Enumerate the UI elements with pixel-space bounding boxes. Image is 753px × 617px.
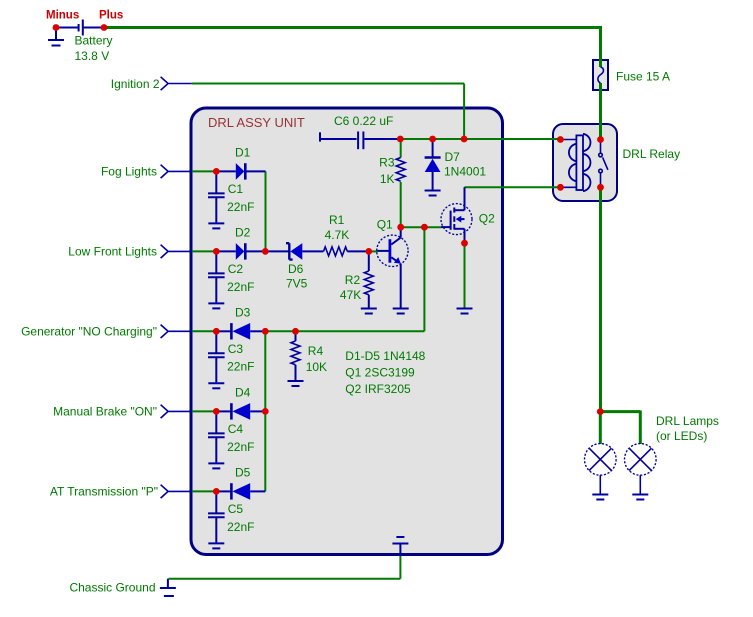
svg-text:R2: R2 [345,273,361,287]
svg-text:C3: C3 [228,342,244,356]
svg-text:22nF: 22nF [227,280,254,294]
svg-text:Battery: Battery [75,34,113,48]
svg-text:10K: 10K [306,360,327,374]
svg-text:Manual Brake "ON": Manual Brake "ON" [53,405,157,419]
svg-text:22nF: 22nF [227,360,254,374]
svg-text:13.8 V: 13.8 V [75,49,110,63]
svg-text:D1-D5 1N4148: D1-D5 1N4148 [345,349,425,363]
svg-text:D1: D1 [235,146,251,160]
svg-text:4.7K: 4.7K [325,228,350,242]
svg-text:22nF: 22nF [227,200,254,214]
svg-text:Generator "NO Charging": Generator "NO Charging" [21,325,157,339]
svg-text:C2: C2 [228,262,244,276]
svg-text:(or LEDs): (or LEDs) [656,429,707,443]
svg-text:Fog Lights: Fog Lights [101,165,157,179]
svg-text:Q1: Q1 [377,218,393,232]
svg-text:7V5: 7V5 [286,277,308,291]
svg-text:Chassic Ground: Chassic Ground [69,580,155,594]
svg-text:AT Transmission "P": AT Transmission "P" [50,485,158,499]
svg-text:C1: C1 [228,182,244,196]
svg-text:C5: C5 [228,502,244,516]
svg-text:Ignition 2: Ignition 2 [111,77,160,91]
svg-text:1N4001: 1N4001 [444,165,486,179]
svg-text:47K: 47K [340,288,361,302]
svg-text:Minus: Minus [46,10,79,22]
svg-text:D6: D6 [288,262,304,276]
svg-text:R4: R4 [308,344,324,358]
svg-text:Q2: Q2 [479,211,495,225]
svg-text:Q1 2SC3199: Q1 2SC3199 [345,366,415,380]
svg-text:Low Front Lights: Low Front Lights [68,245,157,259]
svg-text:DRL ASSY UNIT: DRL ASSY UNIT [208,115,305,130]
svg-text:DRL Relay: DRL Relay [623,147,681,161]
svg-text:D7: D7 [445,150,461,164]
svg-text:R3: R3 [379,156,395,170]
svg-text:D2: D2 [235,226,251,240]
svg-text:22nF: 22nF [227,440,254,454]
svg-text:D5: D5 [235,466,251,480]
svg-text:D3: D3 [235,306,251,320]
svg-text:C6 0.22 uF: C6 0.22 uF [334,114,393,128]
svg-text:D4: D4 [235,386,251,400]
svg-text:22nF: 22nF [227,520,254,534]
svg-text:Fuse 15 A: Fuse 15 A [616,70,670,84]
svg-text:R1: R1 [329,213,345,227]
svg-text:Q2 IRF3205: Q2 IRF3205 [345,382,411,396]
svg-text:DRL Lamps: DRL Lamps [656,414,719,428]
svg-text:C4: C4 [228,422,244,436]
svg-text:Plus: Plus [99,10,123,22]
svg-text:1K: 1K [380,172,395,186]
